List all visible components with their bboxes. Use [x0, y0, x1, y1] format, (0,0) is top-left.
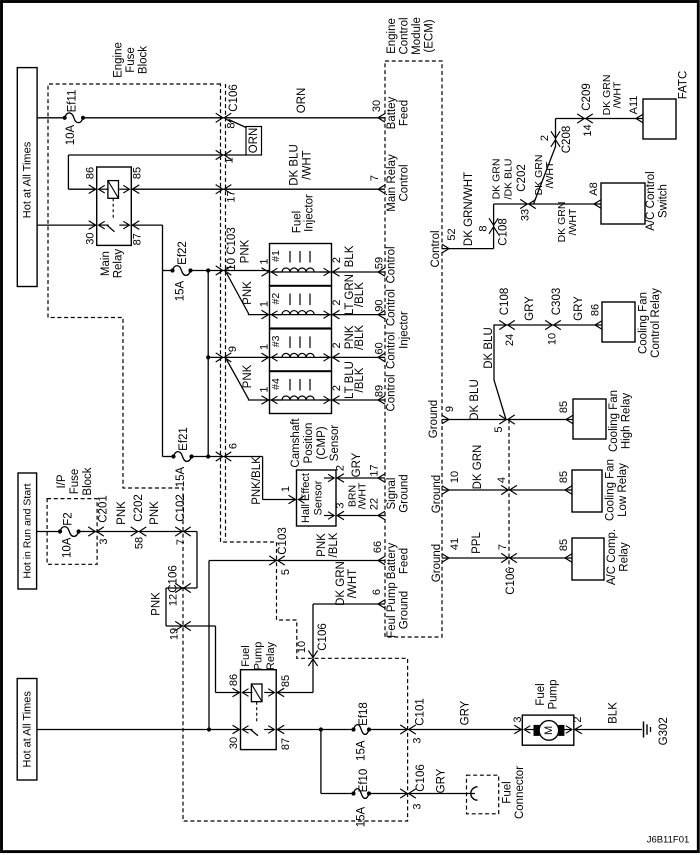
connector C103 pin 5	[269, 556, 276, 565]
node ECM pin 90 Control	[378, 310, 385, 319]
sensor pin 1	[289, 495, 296, 504]
svg-text:15A: 15A	[356, 740, 368, 761]
svg-text:10A: 10A	[62, 537, 74, 558]
wire ECM 52 to C108 (DK GRN/WHT)	[442, 248, 494, 250]
ground G302	[643, 722, 645, 738]
injector #4 coil	[289, 379, 291, 391]
fuse F2 10A	[58, 529, 62, 533]
fuel pump motor	[534, 725, 540, 736]
svg-text:Control: Control	[386, 332, 398, 369]
svg-text:Switch: Switch	[658, 184, 670, 218]
svg-text:2: 2	[331, 385, 343, 391]
node ECM pin 89 Control	[378, 396, 385, 405]
svg-text:Camshaft: Camshaft	[290, 418, 302, 468]
svg-text:Control: Control	[386, 246, 398, 283]
svg-text:Main: Main	[100, 251, 112, 276]
svg-text:C201: C201	[98, 495, 110, 523]
svg-text:87: 87	[132, 233, 144, 245]
svg-text:A/C Control: A/C Control	[645, 171, 657, 230]
component FATC box	[643, 99, 676, 139]
svg-text:Battey: Battey	[386, 96, 398, 129]
svg-text:High Relay: High Relay	[621, 393, 633, 449]
svg-text:(CMP): (CMP)	[316, 426, 328, 459]
svg-text:C102: C102	[175, 494, 187, 522]
connector C106 pin 3	[400, 789, 407, 798]
svg-text:30: 30	[228, 737, 240, 749]
wire fuel pump to ground (BLK)	[574, 729, 642, 731]
svg-text:#2: #2	[270, 293, 282, 305]
svg-text:PNK: PNK	[151, 592, 163, 616]
fuse Ef10 15A	[351, 791, 355, 795]
component A/C Control Switch box	[601, 183, 645, 224]
wire C106 pin 1 to main relay pin 86	[68, 154, 246, 156]
svg-text:2: 2	[331, 300, 343, 306]
node FATC pin A11	[636, 114, 643, 123]
svg-text:19: 19	[169, 628, 181, 640]
power box Hot at All Times (top)	[17, 68, 37, 287]
junction	[206, 268, 210, 272]
connector C101 pin 3	[400, 725, 407, 734]
svg-text:Ground: Ground	[399, 591, 411, 629]
wire to injector 3	[208, 356, 269, 358]
svg-text:Battery: Battery	[386, 543, 398, 580]
svg-text:1: 1	[224, 157, 236, 163]
svg-text:PNK: PNK	[316, 533, 328, 557]
svg-text:GRY: GRY	[573, 296, 585, 321]
boxed label ORN jumper	[246, 127, 262, 156]
svg-text:3: 3	[412, 803, 424, 809]
svg-text:60: 60	[374, 342, 386, 354]
sensor pin 3	[337, 511, 344, 520]
node cooling fan low relay pin 85	[565, 486, 572, 495]
main relay coil arrows	[89, 185, 96, 194]
wire Ef22 to injector 1 (PNK)	[191, 270, 270, 272]
wire injector #2 to ECM pin 90	[332, 314, 386, 316]
wire F2 to C106 pin 12 (PNK)	[79, 531, 197, 533]
svg-text:PNK: PNK	[116, 501, 128, 525]
svg-text:5: 5	[280, 569, 292, 575]
svg-text:Control: Control	[386, 289, 398, 326]
component Cooling Fan Control Relay box	[602, 302, 635, 342]
connector C202 pin 58	[131, 527, 138, 536]
connector C103 pin 10	[216, 266, 223, 275]
wire diagonal to injector 4 (PNK)	[227, 360, 270, 401]
connector C106 pin 7	[501, 553, 508, 562]
svg-text:Pump: Pump	[548, 679, 560, 709]
junction	[207, 727, 211, 731]
svg-text:ORN: ORN	[296, 88, 308, 114]
svg-text:DK BLU: DK BLU	[483, 327, 495, 369]
svg-text:DK BLU: DK BLU	[469, 379, 481, 421]
svg-text:Feed: Feed	[399, 548, 411, 574]
wire ECM pin 6 to fuel pump relay 85 (DK GRN/WHT)	[313, 603, 385, 605]
svg-text:Pump: Pump	[253, 642, 265, 671]
svg-text:Fuel: Fuel	[292, 211, 304, 233]
svg-text:C106: C106	[317, 623, 329, 651]
svg-text:Relay: Relay	[113, 249, 125, 279]
svg-text:7: 7	[369, 175, 381, 181]
wire injector #1 to ECM pin 59	[332, 271, 386, 273]
connector C106/C103 second dashed line	[225, 84, 227, 540]
junction	[319, 727, 323, 731]
connector C106 middle dashed line	[508, 420, 510, 569]
fuel pump relay switch pins 30/87	[233, 725, 240, 734]
wire Hot at All Times to fuse Ef11	[37, 117, 65, 119]
svg-text:DK GRN: DK GRN	[472, 445, 484, 490]
svg-text:6: 6	[371, 589, 383, 595]
svg-text:A11: A11	[628, 96, 640, 115]
svg-text:G302: G302	[658, 717, 670, 745]
injector #4 pins	[262, 396, 269, 405]
wire Hot at All Times to main relay pin 30	[37, 224, 97, 226]
wire main relay pin 87 feed	[131, 224, 162, 226]
wire Ef18 to fuel pump (GRY)	[369, 729, 522, 731]
svg-text:41: 41	[449, 538, 461, 550]
svg-text:DK GRN/WHT: DK GRN/WHT	[463, 172, 475, 246]
svg-text:Fuel: Fuel	[240, 645, 252, 666]
svg-text:86: 86	[590, 304, 602, 316]
svg-text:Low Relay: Low Relay	[617, 463, 629, 517]
node A/C comp relay pin 85	[565, 554, 572, 563]
svg-text:#1: #1	[270, 250, 282, 262]
svg-text:Hot in Run and Start: Hot in Run and Start	[22, 483, 34, 578]
wire injector #3 to ECM pin 60	[332, 356, 386, 358]
fuel pump pins	[514, 725, 521, 734]
ECM dashed box	[385, 61, 442, 637]
svg-text:1: 1	[280, 486, 292, 492]
svg-text:Feul Pump: Feul Pump	[386, 582, 398, 638]
junction	[206, 454, 210, 458]
svg-text:15A: 15A	[175, 466, 187, 487]
svg-text:/BLK: /BLK	[354, 367, 366, 392]
svg-text:1: 1	[259, 344, 271, 350]
connector C106 pin 17	[216, 185, 223, 194]
svg-text:Ef21: Ef21	[178, 427, 190, 451]
sensor pin 2	[337, 474, 344, 483]
connector C201 pin 3	[88, 527, 95, 536]
svg-text:4: 4	[496, 477, 508, 483]
node ECM pin 17	[378, 474, 385, 483]
svg-text:Hall Effect: Hall Effect	[300, 473, 312, 523]
svg-text:J6B11F01: J6B11F01	[647, 835, 690, 846]
main relay dashed link	[112, 198, 114, 219]
svg-text:Relay: Relay	[619, 542, 631, 572]
svg-text:Cooling Fan: Cooling Fan	[638, 292, 650, 354]
node A/C control switch pin A8	[594, 200, 601, 209]
svg-text:30: 30	[371, 100, 383, 112]
wire C106 pin 19 to fuel pump relay pin 86	[215, 626, 217, 693]
wire main relay pin 85 to ECM pin 7 (DK BLU/WHT)	[131, 188, 385, 190]
svg-text:PPL: PPL	[471, 532, 483, 554]
svg-text:/DK BLU: /DK BLU	[503, 159, 515, 200]
svg-text:66: 66	[372, 541, 384, 553]
svg-text:3: 3	[335, 502, 347, 508]
injector #2 coil	[289, 294, 291, 306]
svg-text:C202: C202	[516, 164, 528, 192]
node cooling fan control relay pin 86	[595, 321, 602, 330]
svg-text:3: 3	[412, 737, 424, 743]
main relay coil	[108, 181, 119, 199]
connector C106 pin 12	[175, 583, 182, 592]
svg-text:PNK: PNK	[240, 239, 252, 263]
connector C209 pin 14	[577, 114, 584, 123]
wire diagonal C202 to C208 (DK GRN/WHT)	[534, 119, 556, 205]
connector C106 pin 19	[175, 621, 182, 630]
jumper PNK C106 pin12 to pin19	[165, 588, 167, 626]
svg-text:C106: C106	[228, 84, 240, 112]
wire branch to cooling fan control relay (DK BLU)	[494, 325, 602, 420]
wire relay 87 to fuse Ef18	[276, 729, 353, 731]
svg-text:8: 8	[478, 225, 490, 231]
svg-text:15A: 15A	[356, 806, 368, 827]
svg-text:C303: C303	[551, 288, 563, 316]
wire diagonal to injector 2 (PNK)	[227, 273, 270, 315]
fuel injector #4 box	[270, 372, 332, 414]
node ECM pin 6 Feul Pump Ground	[378, 600, 385, 609]
svg-text:2: 2	[331, 342, 343, 348]
svg-text:2: 2	[331, 257, 343, 263]
svg-text:6: 6	[228, 443, 240, 449]
svg-text:Control: Control	[399, 164, 411, 201]
injector #1 pins	[262, 268, 269, 277]
svg-text:Ground: Ground	[431, 544, 443, 582]
connector C103 pin 9	[216, 353, 223, 362]
fuel injector #2 box	[270, 286, 332, 328]
svg-text:15A: 15A	[175, 280, 187, 301]
svg-text:GRY: GRY	[460, 700, 472, 725]
svg-text:Fuse: Fuse	[69, 469, 81, 495]
svg-text:Block: Block	[82, 467, 94, 495]
wire Ef10 to fuel connector (GRY)	[369, 793, 475, 795]
component Cooling Fan High Relay box	[573, 399, 606, 439]
connector C108 pin 8	[489, 218, 498, 225]
svg-text:A8: A8	[588, 182, 600, 195]
svg-text:C106: C106	[415, 764, 427, 792]
svg-text:90: 90	[374, 299, 386, 311]
svg-text:10: 10	[296, 641, 308, 653]
svg-text:Hot at All Times: Hot at All Times	[21, 691, 33, 768]
svg-text:Position: Position	[303, 423, 315, 464]
svg-text:C103: C103	[277, 527, 289, 555]
svg-text:Ground: Ground	[431, 475, 443, 513]
fuel injector #3 box	[270, 329, 332, 371]
svg-text:BLK: BLK	[608, 702, 620, 724]
wire sensor pin 2 to ECM pin 17 (GRY)	[336, 477, 385, 479]
svg-text:Cooling Fan: Cooling Fan	[608, 390, 620, 452]
main relay switch pins 30/87	[89, 221, 96, 230]
svg-text:Module: Module	[411, 17, 423, 55]
svg-text:GRY: GRY	[524, 296, 536, 321]
power box Hot at All Times (bottom)	[17, 679, 37, 781]
svg-text:Sensor: Sensor	[329, 425, 341, 462]
svg-text:9: 9	[227, 346, 239, 352]
svg-text:(ECM): (ECM)	[424, 19, 436, 52]
connector C106 pin 5	[499, 415, 506, 424]
wire ECM 41 to A/C comp relay (PPL)	[442, 557, 572, 559]
svg-text:F2: F2	[63, 512, 75, 525]
svg-text:59: 59	[374, 257, 386, 269]
svg-text:Sensor: Sensor	[313, 480, 325, 515]
svg-text:86: 86	[85, 167, 97, 179]
wire Ef11 to ECM pin 30 (ORN)	[83, 117, 385, 119]
pump Fuel Pump box	[522, 715, 574, 745]
svg-text:Ef18: Ef18	[358, 702, 370, 726]
svg-text:C108: C108	[499, 288, 511, 316]
svg-text:10A: 10A	[65, 124, 77, 145]
svg-text:Main Relay: Main Relay	[386, 154, 398, 212]
svg-text:85: 85	[558, 401, 570, 413]
connector C102 pin 7	[175, 527, 182, 536]
svg-text:ORN: ORN	[248, 128, 260, 154]
node cooling fan high relay pin 85	[566, 415, 573, 424]
svg-text:PNK: PNK	[149, 501, 161, 525]
svg-text:PNK/BLK: PNK/BLK	[251, 456, 263, 505]
svg-text:7: 7	[497, 544, 509, 550]
svg-text:/WHT: /WHT	[347, 569, 359, 598]
svg-text:3: 3	[512, 716, 524, 722]
svg-text:9: 9	[444, 406, 456, 412]
node ECM pin 41 Ground	[442, 554, 449, 563]
svg-text:86: 86	[228, 674, 240, 686]
svg-text:C106: C106	[505, 567, 517, 595]
svg-text:/WHT: /WHT	[612, 81, 624, 108]
svg-text:Injector: Injector	[304, 194, 316, 232]
svg-text:/WHT: /WHT	[544, 161, 556, 188]
fuse Ef11 10A	[63, 116, 67, 120]
svg-text:M: M	[543, 726, 555, 735]
svg-text:10: 10	[449, 471, 461, 483]
svg-text:24: 24	[504, 334, 516, 346]
svg-text:I/P: I/P	[56, 474, 68, 488]
svg-text:C208: C208	[561, 126, 573, 154]
svg-text:Relay: Relay	[265, 641, 277, 670]
fuse Ef22 15A	[170, 268, 174, 272]
wire branch to fuse Ef10	[320, 730, 322, 794]
wire Hot in Run and Start to fuse F2	[37, 531, 60, 533]
injector #3 pins	[262, 353, 269, 362]
svg-text:7: 7	[175, 539, 187, 545]
svg-text:Ef22: Ef22	[177, 241, 189, 265]
fuel pump relay coil	[251, 684, 262, 702]
component A/C Comp. Relay box	[572, 538, 604, 580]
connector C208 pin 2	[551, 131, 560, 138]
svg-text:2: 2	[539, 135, 551, 141]
svg-text:Signal: Signal	[386, 478, 398, 510]
wire C108 to C202	[494, 203, 601, 205]
connector C106 pin 10	[308, 651, 317, 658]
node ECM pin 59 Control	[378, 268, 385, 277]
connector C103 pin 6	[216, 452, 223, 461]
svg-text:85: 85	[280, 675, 292, 687]
I/P Fuse Block dashed box	[47, 499, 97, 565]
connector C108 pin 24	[499, 320, 506, 329]
node ECM pin 9 Ground	[442, 415, 449, 424]
svg-text:1: 1	[259, 386, 271, 392]
wire ECM pin 66 battery feed (PNK/BLK)	[209, 560, 385, 562]
wire to fuse Ef22	[163, 270, 173, 272]
svg-text:10 C103: 10 C103	[226, 227, 238, 270]
svg-text:#3: #3	[270, 335, 282, 347]
svg-text:Connector: Connector	[514, 766, 526, 819]
svg-text:Control: Control	[399, 17, 411, 54]
wire to fuse Ef21	[163, 456, 174, 458]
svg-text:PNK: PNK	[242, 281, 254, 305]
svg-text:#4: #4	[270, 378, 282, 390]
svg-text:FATC: FATC	[678, 71, 690, 100]
svg-text:GRY: GRY	[351, 452, 363, 477]
connector C303 pin 10	[545, 320, 552, 329]
wire sensor pin 3 to ECM pin 22 (BRN/WHT)	[336, 515, 385, 517]
relay Fuel Pump Relay box	[241, 670, 277, 750]
svg-text:17: 17	[369, 464, 381, 476]
svg-text:12: 12	[168, 594, 180, 606]
connector C106 pin 4	[501, 485, 508, 494]
svg-text:Feed: Feed	[399, 100, 411, 126]
svg-text:/BLK: /BLK	[354, 325, 366, 350]
svg-text:85: 85	[132, 167, 144, 179]
svg-text:Injector: Injector	[399, 311, 411, 349]
svg-text:Hot at All Times: Hot at All Times	[22, 141, 34, 218]
svg-text:DK GRN: DK GRN	[491, 159, 503, 200]
wire Hot at All Times to fuel pump relay pin 30	[37, 729, 241, 731]
svg-text:17: 17	[226, 190, 238, 202]
node ECM pin 60 Control	[378, 353, 385, 362]
svg-text:GRY: GRY	[436, 768, 448, 793]
connector C106 pin 8	[216, 113, 223, 122]
svg-text:Control: Control	[430, 230, 442, 267]
svg-text:52: 52	[446, 228, 458, 240]
svg-text:10: 10	[547, 333, 559, 345]
injector #3 coil	[289, 336, 291, 348]
svg-text:/BLK: /BLK	[328, 532, 340, 557]
wire ECM 10 to cooling fan low relay (DK GRN)	[442, 489, 572, 491]
svg-text:C209: C209	[581, 83, 593, 111]
svg-text:DK BLU: DK BLU	[289, 144, 301, 186]
svg-text:1: 1	[259, 301, 271, 307]
svg-text:Ground: Ground	[428, 400, 440, 438]
svg-text:Ef11: Ef11	[67, 90, 79, 113]
svg-text:Engine: Engine	[113, 42, 125, 78]
fuel connector terminal	[471, 787, 478, 800]
svg-text:/WHT: /WHT	[302, 150, 314, 179]
connector C202 pin 33	[520, 199, 527, 208]
node ECM pin 22	[378, 511, 385, 520]
svg-text:2: 2	[335, 465, 347, 471]
wire injector #4 to ECM pin 89	[332, 399, 386, 401]
svg-text:3: 3	[98, 538, 110, 544]
svg-text:C106: C106	[168, 565, 180, 593]
svg-text:5: 5	[493, 426, 505, 432]
injector #2 pins	[262, 310, 269, 319]
svg-text:22: 22	[369, 498, 381, 510]
sensor Hall Effect Sensor box	[297, 470, 337, 526]
wire ECM 9 to cooling fan high relay (DK BLU)	[442, 419, 573, 421]
svg-text:14: 14	[582, 124, 594, 136]
connector C106 pin 1	[216, 150, 223, 159]
injector #1 coil	[289, 251, 291, 263]
svg-text:/WHT: /WHT	[357, 482, 369, 509]
svg-text:87: 87	[280, 738, 292, 750]
fuse Ef18 15A	[351, 727, 355, 731]
wire C208 to FATC (DK GRN/WHT)	[556, 118, 644, 120]
node ECM pin 52 Control	[442, 244, 449, 253]
svg-text:A/C Comp.: A/C Comp.	[606, 529, 618, 585]
svg-text:Control: Control	[386, 374, 398, 411]
node ECM pin 10 Ground	[442, 486, 449, 495]
svg-text:C101: C101	[415, 698, 427, 726]
Engine Fuse Block / harness dashed boundary	[48, 84, 408, 821]
node ECM pin 7 Main Relay Control	[378, 185, 385, 194]
